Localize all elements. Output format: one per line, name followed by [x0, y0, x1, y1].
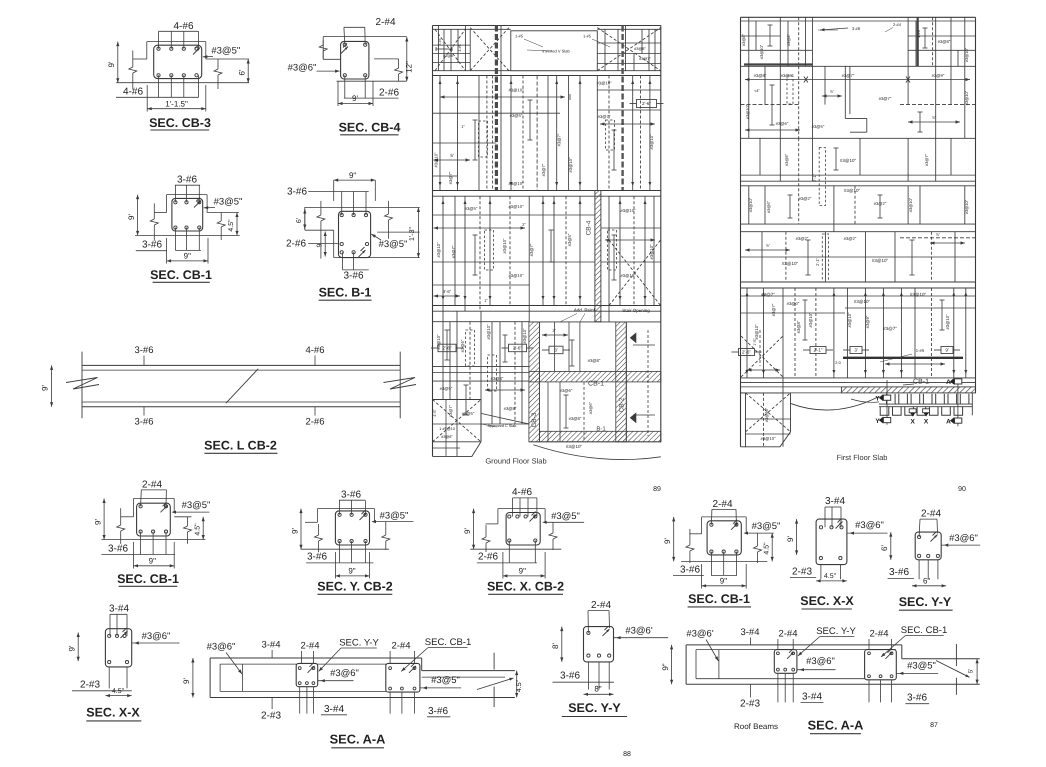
- svg-text:2-#4: 2-#4: [591, 600, 611, 611]
- svg-text:#3@8": #3@8": [491, 376, 504, 381]
- svg-text:2-#4: 2-#4: [300, 641, 319, 652]
- svg-text:#3@8": #3@8": [634, 47, 646, 51]
- svg-text:#3@10": #3@10": [486, 324, 491, 340]
- svg-text:#3@5": #3@5": [462, 411, 475, 416]
- svg-text:6': 6': [296, 218, 303, 223]
- svg-text:#3@10": #3@10": [754, 324, 759, 340]
- svg-text:3-#6: 3-#6: [341, 490, 361, 501]
- svg-text:CB-2: CB-2: [619, 397, 626, 412]
- svg-text:2'-6": 2'-6": [443, 346, 452, 351]
- svg-text:Roof Beams: Roof Beams: [734, 722, 778, 731]
- svg-text:#3@5": #3@5": [380, 511, 409, 522]
- svg-text:#3@8": #3@8": [796, 320, 801, 333]
- svg-text:#3@8": #3@8": [588, 358, 601, 363]
- svg-text:3-#6: 3-#6: [907, 693, 927, 704]
- svg-text:#3@2": #3@2": [844, 236, 857, 241]
- svg-text:#3@5": #3@5": [752, 521, 781, 532]
- svg-text:4-#6: 4-#6: [305, 345, 324, 356]
- svg-text:#3@6": #3@6": [288, 63, 317, 74]
- svg-text:12": 12": [405, 61, 414, 73]
- svg-text:Y: Y: [875, 396, 880, 403]
- svg-text:3-#4: 3-#4: [825, 496, 845, 507]
- svg-text:#3@8": #3@8": [569, 416, 582, 421]
- svg-text:#3@9": #3@9": [865, 315, 870, 328]
- svg-text:#3@10": #3@10": [759, 44, 764, 59]
- svg-text:9': 9': [127, 214, 136, 220]
- svg-text:4'-5": 4'-5": [433, 409, 437, 417]
- svg-text:3-#4: 3-#4: [261, 640, 280, 651]
- svg-text:3-#6: 3-#6: [889, 567, 909, 578]
- svg-text:2-#3: 2-#3: [792, 567, 812, 578]
- svg-text:4.5": 4.5": [764, 542, 771, 555]
- svg-text:Stair Opening: Stair Opening: [622, 308, 650, 313]
- svg-text:SEC. CB-1: SEC. CB-1: [117, 572, 179, 586]
- svg-text:4.5": 4.5": [824, 573, 837, 580]
- svg-text:3-#4: 3-#4: [802, 692, 822, 703]
- svg-text:B-1: B-1: [596, 426, 606, 433]
- svg-text:4.5": 4.5": [516, 679, 523, 692]
- svg-text:2-#4: 2-#4: [778, 629, 797, 640]
- svg-text:3-#6: 3-#6: [134, 345, 153, 356]
- svg-text:3-#6: 3-#6: [177, 175, 197, 186]
- svg-text:9": 9": [184, 252, 191, 261]
- svg-text:3-#6: 3-#6: [134, 417, 153, 428]
- svg-text:4-#6: 4-#6: [123, 87, 143, 98]
- svg-text:#3@10": #3@10": [434, 152, 439, 168]
- svg-text:#3@7": #3@7": [598, 114, 611, 119]
- svg-text:#3@8": #3@8": [741, 33, 746, 46]
- svg-text:#3@8": #3@8": [784, 153, 789, 166]
- svg-text:87: 87: [930, 722, 938, 729]
- svg-text:5': 5': [830, 89, 833, 94]
- svg-text:#3@7": #3@7": [557, 133, 562, 146]
- svg-text:#3@7": #3@7": [529, 243, 534, 256]
- svg-text:#3@5": #3@5": [211, 46, 240, 57]
- svg-text:#3@10": #3@10": [649, 134, 654, 150]
- svg-text:#3@6": #3@6": [560, 388, 573, 393]
- svg-text:3-#6: 3-#6: [560, 671, 580, 682]
- svg-text:#3@10": #3@10": [436, 242, 441, 258]
- svg-text:9': 9': [290, 528, 299, 534]
- svg-text:SEC. Y-Y: SEC. Y-Y: [816, 626, 856, 637]
- svg-text:2'-6": 2'-6": [742, 350, 751, 355]
- svg-text:#3@5": #3@5": [510, 113, 523, 118]
- svg-text:#3@10": #3@10": [522, 328, 527, 344]
- svg-text:2": 2": [522, 222, 526, 227]
- svg-text:3-#6: 3-#6: [108, 544, 128, 555]
- svg-text:2-#4: 2-#4: [438, 38, 442, 45]
- svg-text:A: A: [946, 418, 951, 425]
- svg-text:#3@7": #3@7": [761, 292, 775, 297]
- svg-text:#3@10": #3@10": [502, 238, 507, 254]
- svg-text:#3@5": #3@5": [431, 675, 460, 686]
- svg-text:4-#6: 4-#6: [173, 21, 193, 32]
- svg-text:#3@6": #3@6": [207, 642, 236, 653]
- svg-text:2-0: 2-0: [835, 361, 841, 365]
- svg-text:CB-3: CB-3: [531, 412, 538, 427]
- svg-text:3-#8: 3-#8: [852, 26, 861, 31]
- svg-text:1-#5: 1-#5: [515, 34, 524, 39]
- svg-text:1-#5: 1-#5: [458, 44, 462, 51]
- svg-text:6': 6': [238, 69, 247, 75]
- svg-text:4.5": 4.5": [228, 219, 235, 232]
- svg-text:CB-4: CB-4: [586, 220, 593, 235]
- svg-text:SEC. CB-4: SEC. CB-4: [339, 121, 401, 135]
- svg-text:9": 9": [149, 557, 156, 566]
- svg-text:9": 9": [349, 171, 356, 180]
- svg-text:#3@10": #3@10": [808, 312, 813, 328]
- svg-text:#3@10": #3@10": [649, 244, 654, 260]
- svg-text:2-#6: 2-#6: [305, 417, 324, 428]
- svg-text:1'-1.5": 1'-1.5": [165, 100, 188, 109]
- svg-text:SEC. A-A: SEC. A-A: [808, 718, 864, 733]
- svg-text:3-#6: 3-#6: [307, 552, 327, 563]
- svg-text:#3@8": #3@8": [441, 435, 453, 439]
- svg-text:3-#4: 3-#4: [740, 627, 759, 638]
- svg-text:1": 1": [484, 298, 488, 303]
- svg-text:#3@10": #3@10": [872, 258, 889, 263]
- svg-text:Add. Reinf.: Add. Reinf.: [574, 308, 596, 313]
- svg-text:3-#6: 3-#6: [428, 706, 448, 717]
- svg-text:SEC. CB-1: SEC. CB-1: [425, 637, 471, 648]
- svg-text:4.5": 4.5": [195, 523, 202, 536]
- svg-text:1-#5@10: 1-#5@10: [439, 427, 455, 431]
- svg-text:#3@10": #3@10": [964, 199, 969, 214]
- svg-text:#3@10": #3@10": [840, 158, 857, 163]
- svg-text:2-#4: 2-#4: [391, 641, 410, 652]
- svg-text:89: 89: [653, 486, 661, 493]
- svg-text:#3@10": #3@10": [566, 444, 583, 449]
- svg-text:#3@5": #3@5": [182, 500, 211, 511]
- svg-text:#3@10": #3@10": [620, 273, 636, 278]
- svg-text:3-#6: 3-#6: [343, 271, 363, 282]
- svg-text:90: 90: [958, 486, 966, 493]
- svg-text:2-#6: 2-#6: [286, 239, 306, 250]
- svg-text:#3@6": #3@6": [460, 339, 465, 352]
- svg-text:2-#4: 2-#4: [142, 480, 162, 491]
- svg-text:1'-3": 1'-3": [409, 227, 416, 241]
- svg-text:4-#6: 4-#6: [512, 487, 532, 498]
- svg-text:1": 1": [461, 124, 465, 129]
- svg-text:Ground Floor Slab: Ground Floor Slab: [485, 457, 546, 466]
- svg-text:5': 5': [936, 232, 939, 237]
- svg-text:9": 9": [348, 567, 355, 576]
- svg-text:9': 9': [107, 61, 116, 67]
- svg-text:#3@7": #3@7": [883, 326, 897, 331]
- svg-text:2-#3: 2-#3: [740, 699, 760, 710]
- svg-text:2'-6": 2'-6": [513, 346, 522, 351]
- svg-text:#3@8": #3@8": [938, 39, 951, 44]
- svg-text:#3@6": #3@6": [142, 631, 171, 642]
- svg-text:2'-1": 2'-1": [814, 348, 823, 353]
- svg-text:#3@10": #3@10": [847, 312, 852, 328]
- svg-text:#3@5": #3@5": [812, 124, 825, 129]
- svg-text:#3@10": #3@10": [945, 314, 950, 330]
- svg-text:#3@8": #3@8": [504, 406, 517, 411]
- svg-text:#3@9": #3@9": [781, 73, 794, 78]
- svg-text:9": 9": [661, 663, 670, 670]
- svg-text:#3@9": #3@9": [932, 73, 945, 78]
- svg-text:#3@10": #3@10": [568, 157, 573, 173]
- svg-text:2-#4: 2-#4: [869, 629, 888, 640]
- svg-text:A: A: [946, 379, 951, 386]
- svg-text:9": 9": [519, 567, 526, 576]
- svg-text:5': 5': [932, 115, 935, 120]
- svg-text:#3@10": #3@10": [782, 261, 799, 266]
- svg-text:6": 6": [923, 577, 930, 586]
- svg-text:9': 9': [663, 538, 672, 544]
- svg-text:9': 9': [94, 519, 103, 525]
- svg-text:3': 3': [854, 348, 858, 353]
- svg-text:6': 6': [880, 545, 889, 551]
- svg-text:2-#6: 2-#6: [379, 88, 399, 99]
- svg-text:SEC. Y-Y: SEC. Y-Y: [899, 595, 952, 609]
- svg-text:2'-6": 2'-6": [642, 101, 651, 106]
- svg-text:#3@10": #3@10": [596, 81, 612, 86]
- svg-text:#3@10": #3@10": [910, 292, 927, 297]
- svg-text:9': 9': [786, 536, 795, 542]
- svg-text:SEC. CB-1: SEC. CB-1: [901, 625, 947, 636]
- svg-text:SEC. CB-1: SEC. CB-1: [688, 592, 750, 606]
- svg-text:SEC. X-X: SEC. X-X: [86, 706, 140, 720]
- svg-text:#3@10": #3@10": [620, 208, 636, 213]
- svg-text:2-#3: 2-#3: [80, 680, 100, 691]
- svg-text:SEC. CB-3: SEC. CB-3: [149, 116, 211, 130]
- svg-text:#3@7": #3@7": [639, 57, 651, 61]
- svg-text:3': 3': [554, 348, 558, 353]
- svg-text:SEC. B-1: SEC. B-1: [319, 286, 372, 300]
- svg-text:#3@5": #3@5": [379, 239, 408, 250]
- svg-text:88: 88: [623, 751, 631, 758]
- svg-text:9': 9': [463, 528, 472, 534]
- svg-text:SEC. Y-Y: SEC. Y-Y: [568, 701, 621, 715]
- svg-text:#3@6": #3@6": [776, 121, 789, 126]
- svg-text:First Floor Slab: First Floor Slab: [837, 453, 888, 462]
- svg-text:#3@5": #3@5": [465, 206, 478, 211]
- svg-text:1'-5": 1'-5": [753, 338, 757, 346]
- svg-text:1-#5: 1-#5: [916, 29, 921, 38]
- svg-text:3-#4: 3-#4: [324, 704, 344, 715]
- svg-text:#3@7": #3@7": [771, 303, 776, 316]
- svg-text:#3@6": #3@6": [588, 401, 593, 414]
- svg-text:#3@6": #3@6": [855, 520, 884, 531]
- svg-text:#3@5": #3@5": [907, 661, 936, 672]
- svg-text:8": 8": [594, 685, 601, 694]
- svg-text:#3@10": #3@10": [508, 88, 524, 93]
- svg-text:#3@10": #3@10": [964, 47, 969, 62]
- svg-text:5': 5': [766, 243, 769, 248]
- svg-text:#3@7": #3@7": [541, 163, 546, 176]
- svg-text:#3@7": #3@7": [879, 96, 892, 101]
- svg-text:9': 9': [182, 678, 191, 684]
- svg-text:#3@7": #3@7": [924, 153, 929, 166]
- svg-text:#3@6": #3@6": [766, 200, 771, 213]
- svg-text:#3@7": #3@7": [448, 404, 453, 417]
- svg-text:SEC. X. CB-2: SEC. X. CB-2: [487, 580, 564, 594]
- svg-text:#3@10": #3@10": [844, 188, 861, 193]
- svg-text:SEC. X-X: SEC. X-X: [800, 594, 854, 608]
- svg-text:X: X: [911, 419, 916, 426]
- svg-text:X: X: [924, 419, 929, 426]
- svg-text:9': 9': [945, 348, 949, 353]
- svg-text:#3@10": #3@10": [508, 181, 524, 186]
- svg-text:3': 3': [552, 328, 556, 333]
- svg-text:SEC. Y. CB-2: SEC. Y. CB-2: [317, 580, 393, 594]
- svg-text:9": 9": [720, 577, 727, 586]
- svg-text:#3@10": #3@10": [964, 90, 969, 105]
- svg-text:2-#4: 2-#4: [921, 509, 941, 520]
- svg-text:2'-1": 2'-1": [815, 257, 820, 266]
- svg-text:3-#4: 3-#4: [109, 604, 129, 615]
- svg-text:#3@7": #3@7": [448, 171, 453, 184]
- svg-text:#3@10": #3@10": [760, 436, 776, 441]
- svg-text:2-#4: 2-#4: [375, 17, 395, 28]
- svg-text:1-#5: 1-#5: [583, 34, 592, 39]
- svg-text:Y: Y: [875, 418, 880, 425]
- svg-text:<4": <4": [754, 89, 760, 93]
- svg-text:#3@5": #3@5": [551, 511, 580, 522]
- svg-text:#3@10": #3@10": [508, 273, 524, 278]
- svg-text:3-#6: 3-#6: [680, 565, 700, 576]
- svg-text:#3@6': #3@6': [686, 629, 713, 640]
- svg-text:#3@8": #3@8": [786, 33, 791, 46]
- svg-text:3-#6: 3-#6: [142, 240, 162, 251]
- svg-text:#3@5": #3@5": [440, 386, 453, 391]
- svg-text:5': 5': [968, 669, 975, 673]
- svg-text:#3@7": #3@7": [451, 245, 456, 258]
- svg-text:#3@0": #3@0": [787, 301, 800, 306]
- svg-text:CB-1: CB-1: [913, 379, 929, 386]
- svg-text:CB-1: CB-1: [588, 381, 604, 388]
- svg-text:#3@2": #3@2": [799, 196, 812, 201]
- svg-text:9': 9': [41, 385, 50, 391]
- svg-text:SEC. L CB-2: SEC. L CB-2: [204, 439, 277, 453]
- svg-text:#3@6": #3@6": [330, 668, 359, 679]
- svg-text:4.5": 4.5": [112, 688, 125, 695]
- svg-text:#3@10": #3@10": [908, 197, 913, 212]
- svg-text:#3@6": #3@6": [806, 656, 835, 667]
- svg-text:2-#6: 2-#6: [478, 552, 498, 563]
- svg-text:2-#3: 2-#3: [261, 711, 281, 722]
- svg-text:SEC. Y-Y: SEC. Y-Y: [339, 638, 379, 649]
- svg-text:#3@10": #3@10": [436, 334, 441, 350]
- svg-text:9: 9: [317, 243, 324, 247]
- svg-text:#3@10": #3@10": [764, 407, 769, 422]
- svg-text:#3@10": #3@10": [508, 204, 524, 209]
- svg-text:#3@7": #3@7": [842, 73, 855, 78]
- svg-text:9': 9': [68, 645, 77, 651]
- svg-text:3'-6": 3'-6": [443, 289, 452, 294]
- svg-text:8': 8': [551, 643, 560, 649]
- svg-text:5': 5': [450, 153, 454, 158]
- svg-text:2-#4: 2-#4: [712, 499, 732, 510]
- svg-text:#3@6": #3@6": [949, 533, 978, 544]
- svg-text:#3@6': #3@6': [625, 626, 652, 637]
- svg-text:#3@10": #3@10": [745, 104, 750, 119]
- svg-text:SEC. A-A: SEC. A-A: [330, 732, 386, 747]
- svg-text:1-#5: 1-#5: [916, 348, 925, 353]
- svg-text:#3@10": #3@10": [854, 299, 871, 304]
- svg-text:#3@5": #3@5": [567, 233, 572, 246]
- svg-text:#3@5": #3@5": [214, 197, 243, 208]
- svg-text:SEC. CB-1: SEC. CB-1: [150, 268, 212, 282]
- svg-text:#3@10": #3@10": [748, 197, 753, 212]
- svg-text:3-#6: 3-#6: [287, 187, 307, 198]
- svg-text:2-#4: 2-#4: [893, 22, 902, 27]
